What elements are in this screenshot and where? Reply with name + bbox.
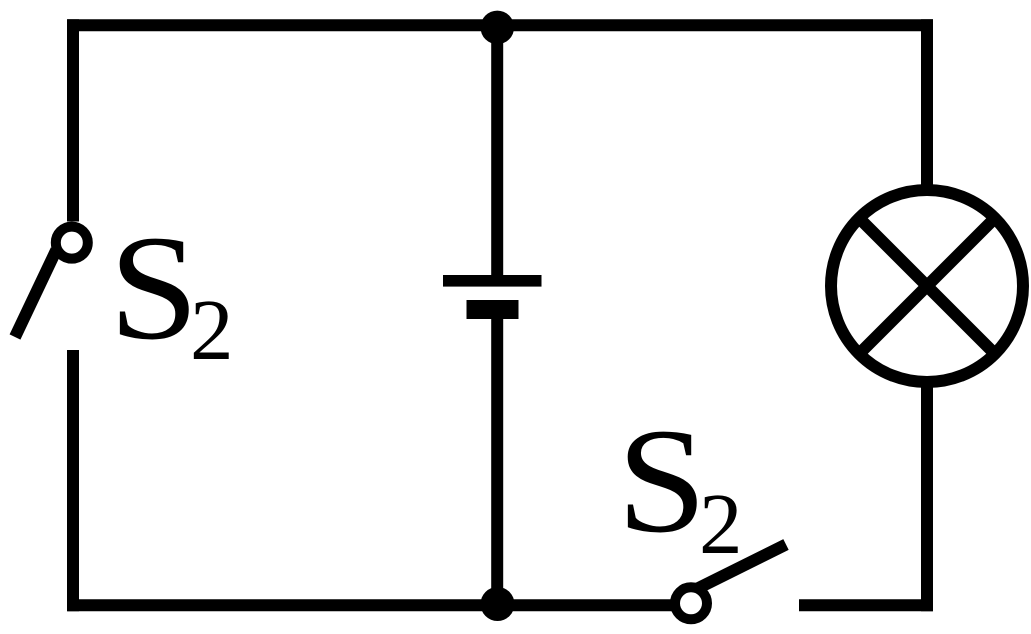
- svg-text:2: 2: [699, 475, 743, 572]
- svg-text:S: S: [109, 204, 199, 370]
- svg-text:S: S: [617, 397, 707, 563]
- svg-text:2: 2: [190, 281, 234, 378]
